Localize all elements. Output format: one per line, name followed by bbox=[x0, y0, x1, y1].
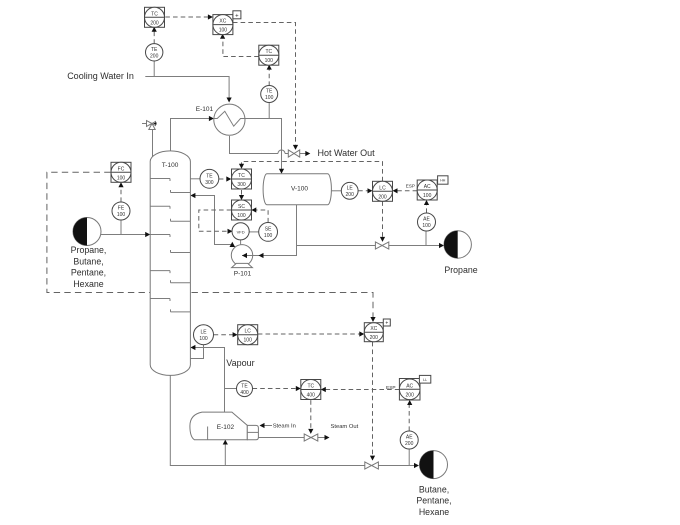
svg-text:200: 200 bbox=[406, 392, 415, 398]
svg-text:100: 100 bbox=[422, 223, 431, 229]
svg-text:100: 100 bbox=[237, 213, 246, 219]
svg-text:100: 100 bbox=[219, 28, 228, 34]
svg-text:HH: HH bbox=[440, 179, 446, 183]
svg-text:200: 200 bbox=[150, 54, 159, 60]
svg-text:LC: LC bbox=[379, 185, 386, 191]
svg-text:E-102: E-102 bbox=[217, 424, 235, 431]
svg-text:AE: AE bbox=[406, 435, 413, 441]
svg-text:200: 200 bbox=[370, 335, 379, 341]
svg-text:100: 100 bbox=[117, 175, 126, 181]
svg-text:TC: TC bbox=[151, 11, 158, 17]
svg-text:Propane,: Propane, bbox=[71, 245, 107, 255]
svg-text:TE: TE bbox=[151, 47, 158, 53]
svg-text:Hexane: Hexane bbox=[419, 507, 449, 517]
svg-text:ESP: ESP bbox=[406, 184, 415, 189]
svg-text:Propane: Propane bbox=[444, 265, 477, 275]
svg-text:SC: SC bbox=[238, 204, 245, 210]
svg-text:LC: LC bbox=[244, 329, 251, 335]
svg-text:LE: LE bbox=[347, 186, 354, 192]
svg-text:100: 100 bbox=[264, 233, 273, 239]
svg-text:TC: TC bbox=[238, 173, 245, 179]
svg-text:Butane,: Butane, bbox=[73, 256, 103, 266]
svg-text:TE: TE bbox=[206, 174, 213, 180]
svg-text:100: 100 bbox=[117, 212, 126, 218]
svg-text:300: 300 bbox=[205, 180, 214, 186]
svg-text:100: 100 bbox=[423, 193, 432, 199]
svg-text:Hexane: Hexane bbox=[73, 279, 103, 289]
svg-text:100: 100 bbox=[199, 336, 208, 342]
svg-text:Steam Out: Steam Out bbox=[331, 424, 359, 430]
svg-text:100: 100 bbox=[265, 95, 274, 101]
svg-text:AE: AE bbox=[423, 217, 430, 223]
svg-text:VFD: VFD bbox=[237, 229, 245, 234]
svg-text:100: 100 bbox=[265, 58, 274, 64]
svg-text:ESP: ESP bbox=[386, 385, 396, 391]
svg-text:200: 200 bbox=[378, 194, 387, 200]
svg-text:LE: LE bbox=[200, 329, 207, 335]
svg-text:AC: AC bbox=[406, 383, 413, 389]
svg-text:FC: FC bbox=[118, 166, 125, 172]
svg-text:Steam In: Steam In bbox=[273, 424, 296, 430]
svg-text:LL: LL bbox=[423, 378, 427, 382]
svg-text:400: 400 bbox=[240, 390, 249, 396]
svg-text:200: 200 bbox=[405, 441, 414, 447]
svg-text:T-100: T-100 bbox=[162, 162, 179, 169]
svg-text:FE: FE bbox=[118, 206, 125, 212]
svg-text:200: 200 bbox=[346, 192, 355, 198]
svg-text:+: + bbox=[385, 321, 388, 327]
svg-text:TC: TC bbox=[265, 49, 272, 55]
svg-text:XC: XC bbox=[219, 19, 226, 25]
svg-text:TE: TE bbox=[266, 89, 273, 95]
svg-text:100: 100 bbox=[244, 338, 253, 344]
svg-text:SE: SE bbox=[265, 227, 272, 233]
svg-text:Vapour: Vapour bbox=[226, 358, 254, 368]
svg-text:Hot Water Out: Hot Water Out bbox=[318, 148, 376, 158]
svg-text:P-101: P-101 bbox=[234, 270, 252, 277]
svg-text:Butane,: Butane, bbox=[419, 485, 449, 495]
svg-text:TE: TE bbox=[241, 383, 248, 389]
svg-text:400: 400 bbox=[307, 393, 316, 399]
svg-text:300: 300 bbox=[237, 182, 246, 188]
svg-text:Cooling Water In: Cooling Water In bbox=[67, 71, 134, 81]
svg-text:+: + bbox=[235, 13, 239, 19]
svg-text:XC: XC bbox=[370, 326, 377, 332]
svg-text:Pentane,: Pentane, bbox=[71, 268, 106, 278]
svg-text:AC: AC bbox=[424, 184, 431, 190]
svg-text:200: 200 bbox=[150, 20, 159, 26]
svg-text:V-100: V-100 bbox=[291, 186, 308, 193]
svg-text:E-101: E-101 bbox=[196, 106, 214, 113]
svg-text:TC: TC bbox=[307, 384, 314, 390]
svg-text:Pentane,: Pentane, bbox=[416, 496, 451, 506]
